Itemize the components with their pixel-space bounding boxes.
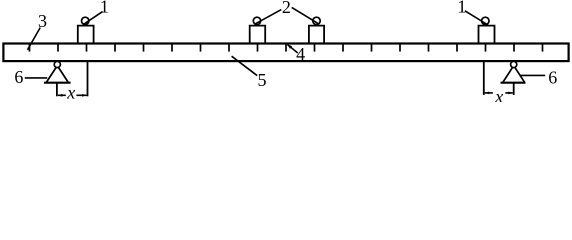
- label 2: [282, 0, 291, 17]
- weight block 1 (left): [78, 17, 94, 44]
- label 1 (left): [100, 0, 109, 16]
- support pivot (left): knife-edge circle: [54, 61, 60, 67]
- svg-text:x: x: [494, 86, 503, 102]
- leader line to label 6 (left): [25, 77, 47, 79]
- support pivot (left), item 6: triangle: [47, 66, 69, 83]
- leader line from label 2 to left middle block: [255, 10, 282, 25]
- dimension extension line below beam (left x span): [87, 62, 89, 96]
- support pivot (right), item 6: triangle: [503, 66, 524, 83]
- svg-text:4: 4: [296, 44, 305, 64]
- support pivot (left): base ground line: [44, 82, 71, 84]
- svg-text:6: 6: [548, 68, 557, 88]
- svg-text:1: 1: [457, 0, 466, 16]
- dimension extension line below beam (right x span): [483, 62, 485, 95]
- weight block 2b (middle-right): [309, 17, 324, 44]
- dimension extension line at left support centre: [56, 83, 58, 96]
- label 1 (right): [457, 0, 466, 16]
- dimension label x (right): [494, 86, 503, 106]
- leader line to label 5 (beam underside): [232, 56, 258, 75]
- weight block 2a (middle-left): [250, 17, 266, 44]
- leader line to label 3 (beam scale): [28, 28, 41, 50]
- scale tick marks on beam (graduations): [30, 44, 543, 51]
- dimension line left (span x) with arrowheads: [58, 94, 87, 97]
- label 3: [38, 11, 47, 31]
- beam (ruler body), item 5: [3, 44, 568, 62]
- svg-text:3: 3: [38, 11, 47, 31]
- dimension line right (span x) with arrowheads: [485, 92, 513, 95]
- label 6 (right): [548, 68, 557, 88]
- leader line to label 6 (right): [520, 74, 545, 76]
- support pivot (right): base ground line: [501, 82, 526, 84]
- weight block 1 (right): [479, 17, 495, 44]
- support pivot (right): knife-edge circle: [511, 61, 517, 67]
- svg-text:5: 5: [258, 70, 267, 90]
- svg-text:2: 2: [282, 0, 291, 17]
- label 6 (left): [14, 67, 23, 87]
- label 4: [296, 44, 305, 64]
- svg-text:6: 6: [14, 67, 23, 87]
- leader line to label 1 (right): [465, 11, 488, 25]
- dimension extension line at right support centre: [513, 83, 515, 95]
- label 5: [258, 70, 267, 90]
- leader line from label 2 to right middle block: [292, 7, 319, 24]
- leader line to label 1 (left): [83, 12, 102, 25]
- svg-text:1: 1: [100, 0, 109, 16]
- svg-text:x: x: [66, 82, 75, 102]
- dimension label x (left): [66, 82, 75, 102]
- leader arrow to label 4 (graduation mark): [287, 44, 298, 53]
